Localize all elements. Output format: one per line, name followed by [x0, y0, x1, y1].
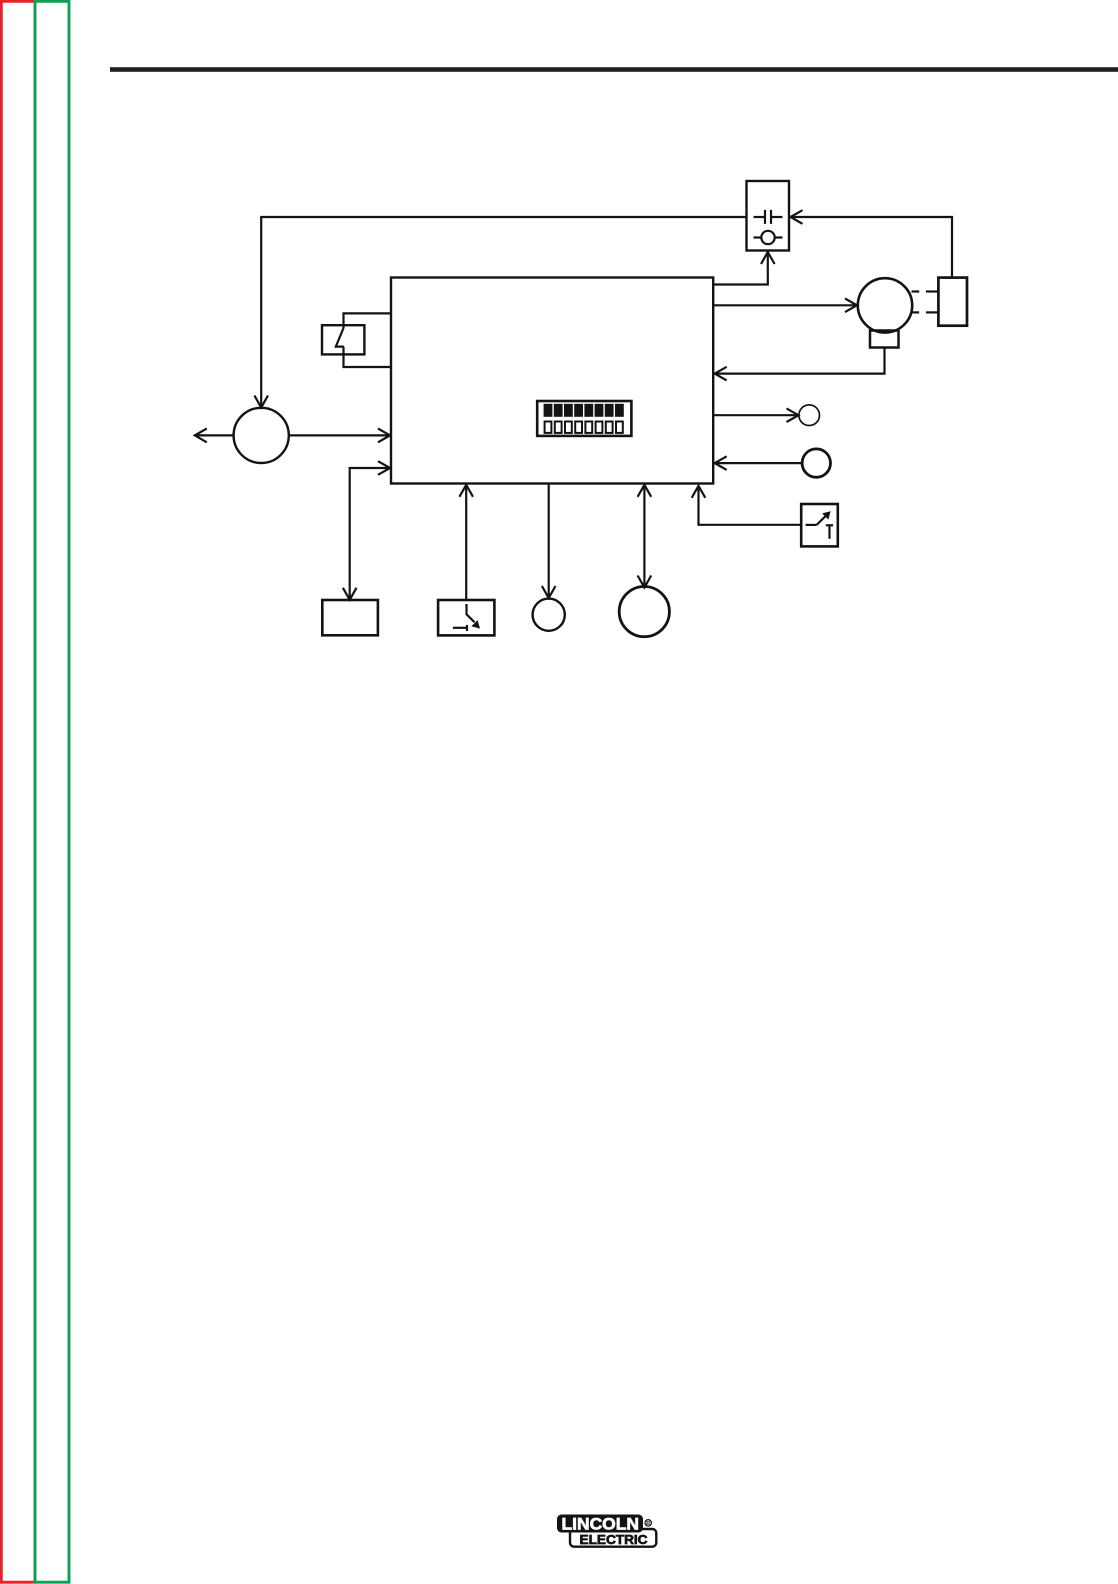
wire: fan circle to main rect: [289, 434, 390, 436]
wire: circle B input to rect: [716, 462, 803, 464]
wire: rect to wire drive motor: [713, 304, 856, 306]
top rule: [110, 67, 1118, 72]
arrowhead right into rect: [378, 429, 390, 443]
DIP switch block: [537, 401, 631, 436]
wire: double arrow to circle D: [643, 486, 645, 587]
gearbox rectangle: [938, 278, 967, 326]
registered mark: [645, 1520, 651, 1526]
thermostat switch lever: [817, 515, 827, 525]
arrowhead right into motor: [845, 299, 857, 313]
wire: relay loop bottom: [344, 347, 392, 367]
relay coil box: [322, 325, 364, 354]
wire: rect left input from bottom box: [350, 468, 389, 599]
arrowhead right into circle A: [787, 408, 799, 422]
wire: thermostat to rect bottom: [699, 487, 802, 525]
wire: rect to indicator circle A: [713, 414, 797, 416]
wire: fan exhaust arrow left: [196, 434, 234, 436]
gun switch lever: [467, 604, 475, 622]
capacitor symbol in solenoid box: [754, 216, 765, 218]
wire: gun switch box up to rect: [465, 486, 467, 600]
svg-text:ELECTRIC: ELECTRIC: [580, 1532, 648, 1547]
relay loop wires: [344, 313, 392, 328]
arrowhead up into rect bottom: [459, 485, 473, 497]
arrowhead down into circle C: [542, 586, 556, 598]
arrowhead down into bottom box: [343, 588, 357, 600]
arrowhead right into rect: [378, 461, 390, 475]
thermostat box: [801, 504, 838, 546]
fan motor circle: [234, 408, 289, 463]
lamp symbol in solenoid box: [761, 231, 774, 244]
thermostat letter T: [826, 524, 833, 526]
red sidebar rectangle: [1, 1, 35, 1582]
arrowhead up into solenoid box: [761, 252, 775, 264]
svg-text:LINCOLN: LINCOLN: [562, 1515, 640, 1534]
wire: down to small circle C: [548, 485, 550, 597]
input circle B: [802, 449, 830, 477]
wire: top long horizontal from fan drop to capacitor box: [261, 217, 746, 407]
circle D: [619, 587, 669, 637]
arrowhead left into solenoid box: [791, 210, 803, 224]
arrowhead left: [195, 429, 207, 443]
lincoln box: [557, 1515, 643, 1533]
indicator circle A: [799, 405, 820, 426]
bottom left box: [322, 600, 378, 635]
svg-text:R: R: [646, 1521, 651, 1527]
tachometer box under motor: [870, 331, 899, 348]
small circle C: [533, 599, 565, 631]
thermostat lever arrowhead (filled): [822, 511, 831, 519]
gun switch lever arrowhead (filled): [471, 620, 480, 629]
gun switch contact: [453, 627, 466, 629]
arrowhead down into fan circle: [254, 396, 268, 408]
gun switch box: [438, 600, 494, 635]
arrowhead up into rect bottom: [638, 485, 652, 497]
wire: tach feedback to rect: [716, 348, 885, 374]
green sidebar rectangle: [35, 1, 69, 1582]
wire drive motor circle: [858, 278, 912, 332]
dashed shaft coupling bottom: [912, 311, 920, 313]
arrowhead down into circle D: [638, 576, 652, 588]
relay jog glyph: [336, 328, 344, 347]
thermostat switch contact: [806, 524, 817, 526]
electric box: [570, 1529, 656, 1547]
arrowhead left into rect: [715, 367, 727, 381]
arrowhead up into rect bottom: [692, 486, 706, 498]
Lincoln Electric logo: [557, 1515, 656, 1548]
gas solenoid box (top right): [747, 181, 790, 251]
main control board rectangle: [391, 278, 713, 484]
wire: rect to solenoid box bottom: [713, 253, 768, 285]
dashed shaft coupling top: [912, 290, 920, 292]
arrowhead left into rect: [715, 456, 727, 470]
wire: right loop from solenoid box to gearbox drop: [791, 217, 953, 277]
